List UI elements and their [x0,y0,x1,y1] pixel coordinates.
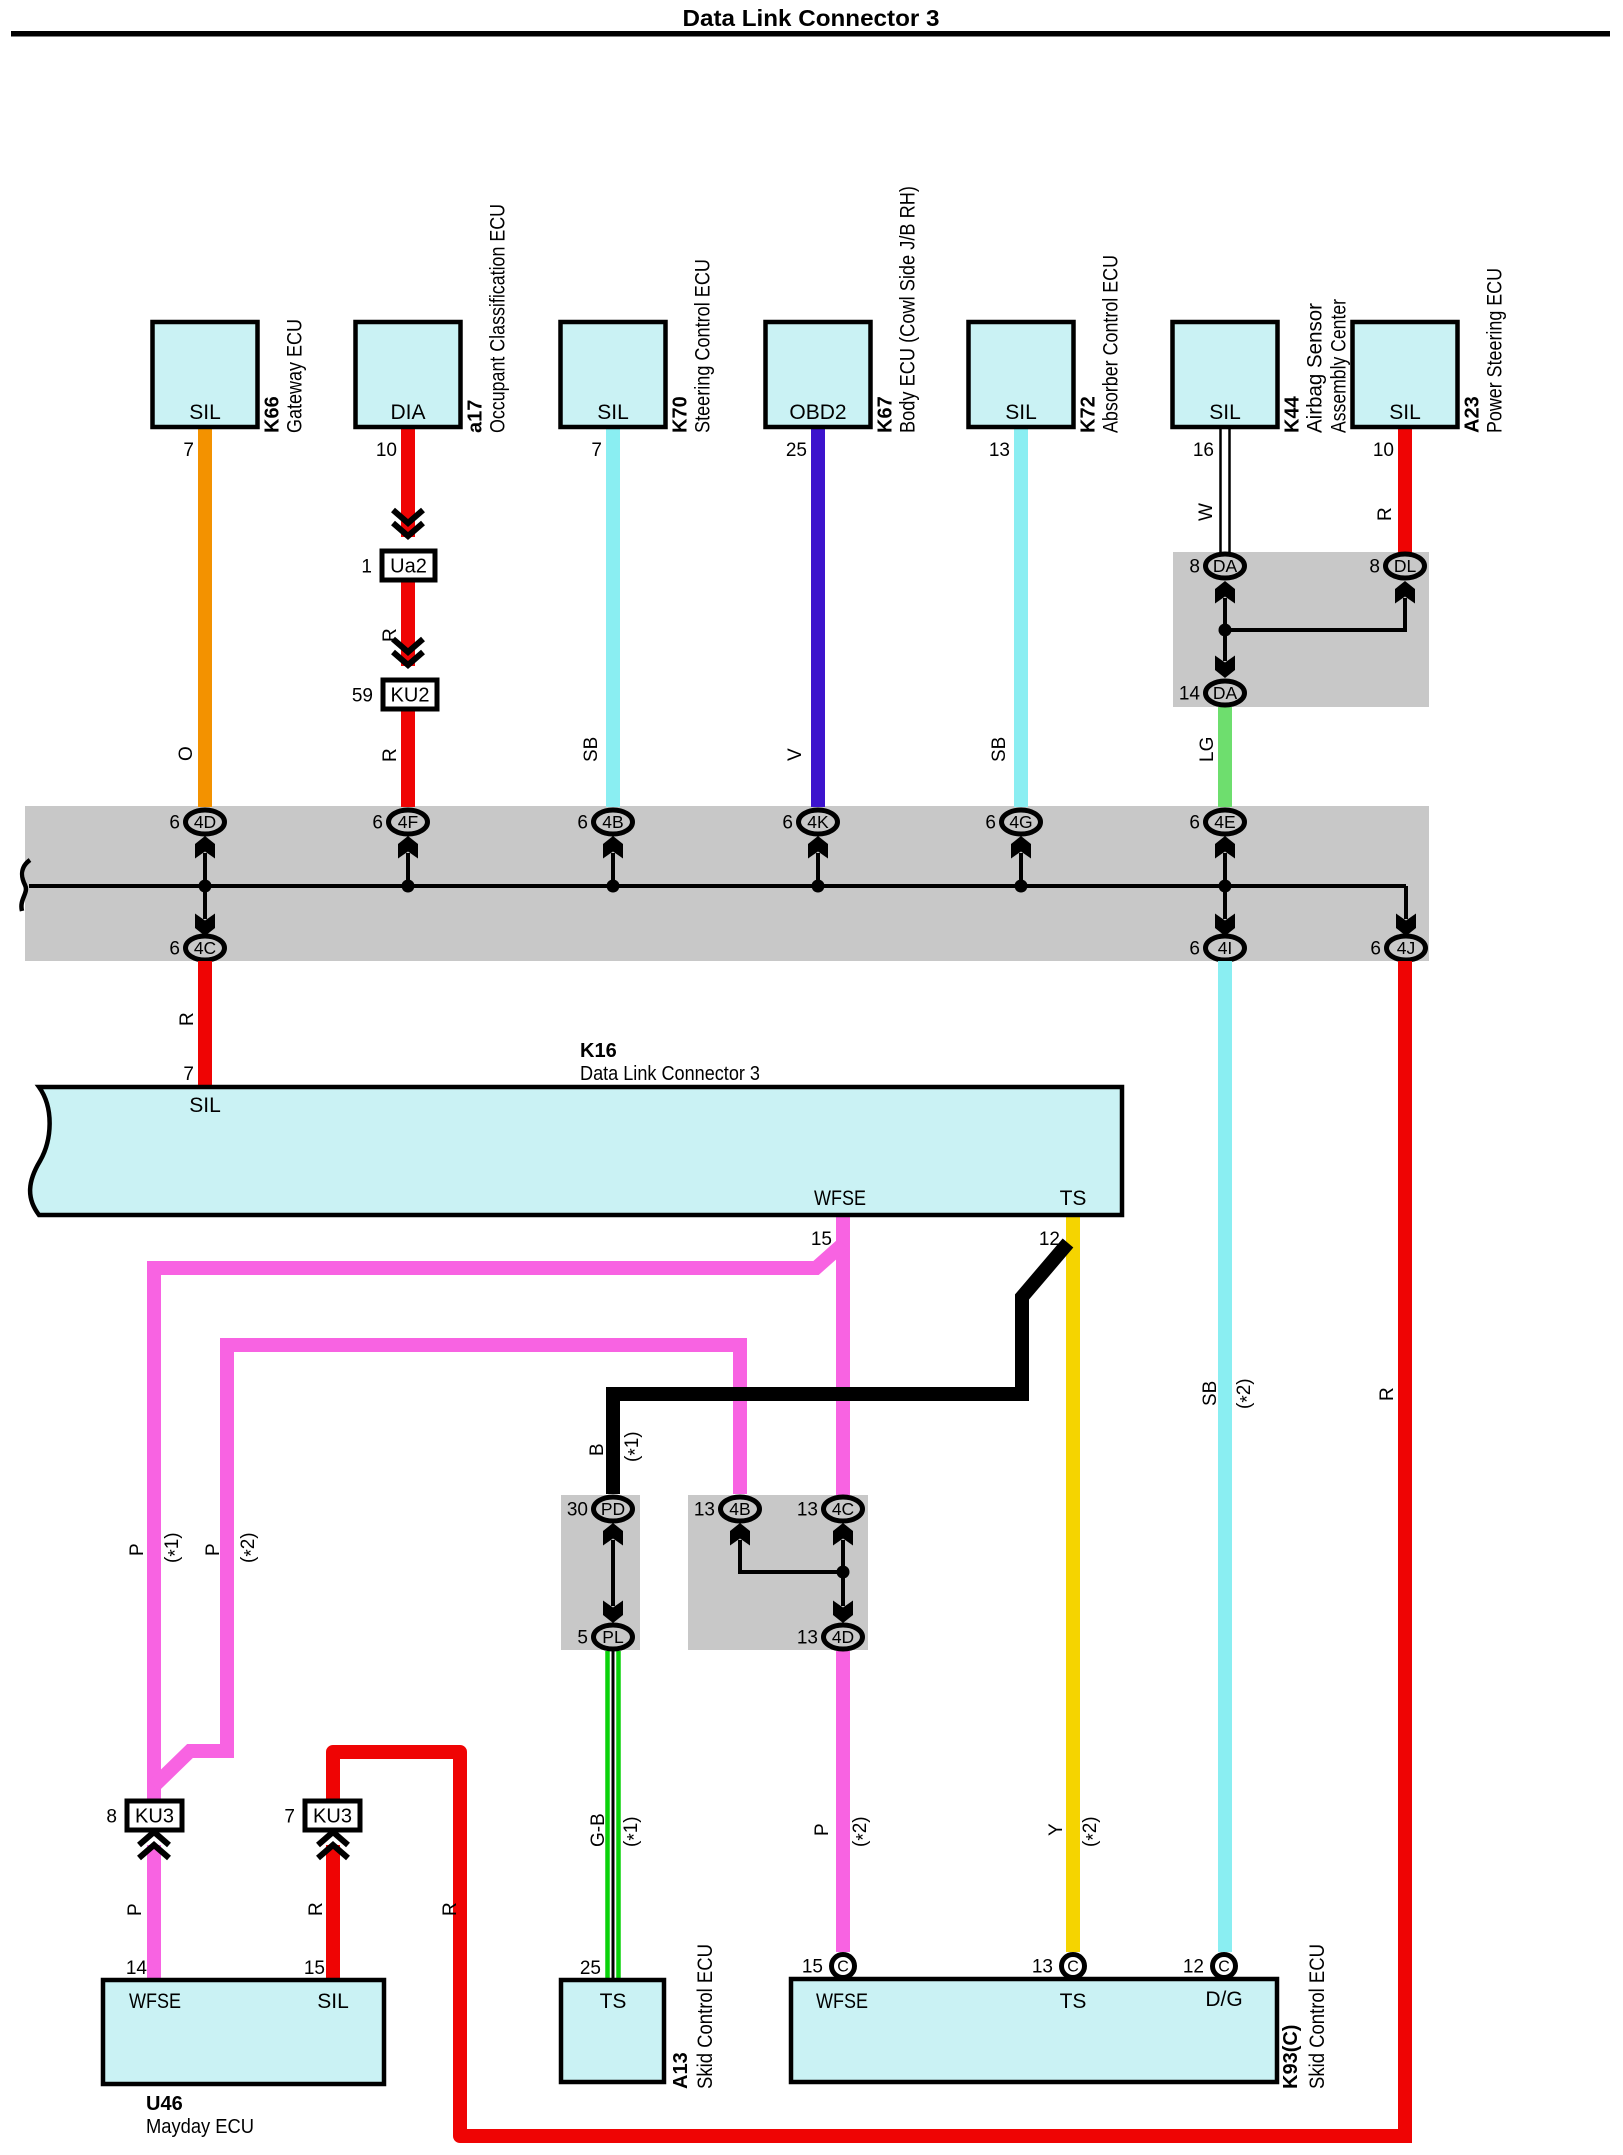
svg-text:4F: 4F [398,812,418,832]
svg-text:K93(C): K93(C) [1280,2025,1302,2089]
svg-text:KU2: KU2 [391,685,430,707]
connector C pin 15 [802,1955,855,1978]
connector 4F pin 6 [372,810,427,834]
junction node at 4D column [199,880,212,893]
wire R (red) 4J down to bottom loop [1398,961,1412,2143]
junction node in 4B/4C/4D block [837,1566,850,1579]
ECU box K93 Skid Control ECU [791,1979,1277,2082]
svg-text:P: P [127,1543,148,1556]
svg-text:C: C [1218,1959,1230,1976]
wire O (orange) K66 pin 7 to 4D [198,427,212,807]
wire: junction to DL inside K44 block [1225,598,1405,630]
svg-text:4G: 4G [1009,812,1032,832]
svg-text:4B: 4B [729,1499,750,1519]
wire R (red) A23 pin 10 to DL [1398,427,1412,553]
svg-text:SIL: SIL [1389,401,1421,424]
connector 4I pin 6 [1189,936,1244,960]
arrow into DA (14) [1215,656,1235,679]
junction node at 4F column [402,880,415,893]
svg-text:4J: 4J [1397,938,1415,958]
wire R (red) KU2 to 4F [401,709,415,807]
svg-text:16: 16 [1193,440,1214,461]
svg-text:U46: U46 [146,2093,183,2115]
wire stub to 4I [1223,886,1227,919]
connector DL pin 8 [1369,554,1424,578]
wire R (red) 4C to K16 pin 7 [198,961,212,1088]
title underline bar [11,31,1610,37]
ECU box U46 Mayday ECU [103,1980,384,2084]
wire stub to 4F [406,853,410,886]
svg-text:6: 6 [1370,939,1381,960]
ECU box K67 Body ECU [766,322,871,427]
svg-text:K67: K67 [875,396,897,433]
svg-text:A23: A23 [1462,396,1484,433]
svg-text:B: B [587,1443,608,1456]
svg-text:Body ECU (Cowl Side J/B RH): Body ECU (Cowl Side J/B RH) [897,186,920,433]
svg-text:6: 6 [169,813,180,834]
svg-text:4B: 4B [602,812,623,832]
connector 4K pin 6 [782,810,837,834]
junction node at 4G column [1015,880,1028,893]
svg-text:Occupant Classification ECU: Occupant Classification ECU [487,204,510,433]
gray connector block DA/DL (K44 area) [1173,552,1429,707]
svg-text:WFSE: WFSE [129,1990,181,2013]
svg-text:4D: 4D [832,1627,854,1647]
connector 4D pin 13 [797,1625,863,1649]
svg-text:7: 7 [591,440,602,461]
wire: DA to junction inside K44 block [1223,598,1227,661]
wire W (white) K44 pin 16 to DA [1221,427,1230,553]
svg-text:SIL: SIL [317,1990,349,2013]
svg-text:Data Link Connector 3: Data Link Connector 3 [683,5,940,31]
wire stub to 4C [203,886,207,919]
wire B (black *1) K16 TS pin 12 to PD(30) [613,1243,1068,1494]
connector PD pin 30 [567,1497,633,1521]
arrow into 4E [1215,836,1235,859]
connector KU3 pin 7 [284,1801,360,1830]
svg-text:DIA: DIA [390,401,425,424]
svg-text:6: 6 [1189,939,1200,960]
svg-text:Y: Y [1046,1823,1067,1836]
connector 4C pin 13 [797,1497,863,1521]
svg-text:(*1): (*1) [622,1431,647,1462]
svg-text:PL: PL [602,1627,624,1647]
wire G-B (green-black) PL pin 5 to A13 TS pin 25 [608,1651,619,1980]
svg-text:D/G: D/G [1205,1988,1242,2011]
svg-text:SIL: SIL [1209,401,1241,424]
wire 4C to 4D inside block [841,1540,845,1606]
svg-text:R: R [306,1902,327,1916]
svg-text:V: V [785,748,806,761]
bus wire (horizontal) in junction band [29,884,1406,888]
ECU box A13 Skid Control ECU [561,1980,664,2082]
svg-text:DL: DL [1394,556,1417,576]
svg-text:(*2): (*2) [238,1532,263,1563]
wire P (pink *1) branch to KU3 pin 8 [154,1244,843,1801]
svg-text:15: 15 [304,1958,325,1979]
svg-text:(*2): (*2) [1080,1816,1105,1847]
svg-text:K70: K70 [670,396,692,433]
svg-text:4K: 4K [807,812,829,832]
wire P (pink *2) from 4B(13) to merge [154,1345,740,1786]
svg-text:SB: SB [989,737,1010,762]
wire R (red) loop upper segment [333,1752,1398,2136]
svg-text:K44: K44 [1282,395,1304,433]
svg-text:A13: A13 [670,2052,692,2089]
inline connector chevrons above Ua2 [393,510,423,536]
svg-text:Steering Control ECU: Steering Control ECU [692,259,715,433]
svg-text:25: 25 [786,440,807,461]
wire 4B to junction inside block [740,1540,843,1572]
arrow into 4J [1396,914,1416,937]
connector C pin 13 [1032,1955,1085,1978]
svg-text:SIL: SIL [189,1094,221,1117]
svg-text:14: 14 [126,1958,148,1979]
svg-text:25: 25 [580,1958,601,1979]
svg-text:LG: LG [1197,737,1218,762]
svg-text:R: R [1375,507,1396,521]
svg-text:TS: TS [1060,1187,1087,1210]
connector DA pin 8 [1189,554,1244,578]
wire Y (yellow) K16 TS pin 12 to K93 TS pin 13 [1066,1217,1080,1952]
svg-text:6: 6 [372,813,383,834]
svg-text:KU3: KU3 [313,1806,352,1828]
svg-text:15: 15 [811,1229,832,1250]
junction node in K44 block [1219,624,1232,637]
svg-text:4D: 4D [194,812,216,832]
svg-text:TS: TS [1060,1990,1087,2013]
svg-text:7: 7 [284,1807,295,1828]
wire stub to 4E [1223,853,1227,886]
svg-text:Data Link Connector 3: Data Link Connector 3 [580,1063,760,1085]
svg-text:13: 13 [797,1500,818,1521]
wire PD to PL inside block [611,1540,615,1606]
bus wire break symbol [21,860,30,911]
arrow into PD [603,1523,623,1546]
svg-text:a17: a17 [465,400,487,433]
connector 4D pin 6 [169,810,224,834]
svg-text:DA: DA [1213,556,1238,576]
wire R (red) a17 pin 10 to Ua2 [401,427,415,537]
svg-text:G-B: G-B [588,1813,609,1847]
junction node at 4E column [1219,880,1232,893]
svg-text:59: 59 [352,686,373,707]
svg-text:Gateway ECU: Gateway ECU [284,319,307,433]
svg-text:8: 8 [106,1807,117,1828]
arrow into 4I [1215,914,1235,937]
svg-text:SB: SB [581,737,602,762]
wire LG (light green) DA pin 14 to 4E [1218,707,1232,807]
svg-text:10: 10 [1373,440,1394,461]
svg-text:(*1): (*1) [621,1816,646,1847]
svg-text:Absorber Control ECU: Absorber Control ECU [1100,255,1123,433]
svg-text:R: R [1377,1387,1398,1401]
svg-text:13: 13 [694,1500,715,1521]
arrow into 4B(13) [730,1523,750,1546]
svg-text:6: 6 [577,813,588,834]
svg-text:12: 12 [1183,1957,1204,1978]
svg-text:14: 14 [1179,684,1201,705]
svg-text:K16: K16 [580,1040,617,1062]
gray junction-block band (4x connectors) [25,806,1429,961]
svg-text:R: R [380,628,401,642]
svg-text:K72: K72 [1078,396,1100,433]
junction node at 4K column [812,880,825,893]
svg-text:WFSE: WFSE [814,1187,866,1210]
wire stub to 4K [816,853,820,886]
wire P (pink) KU3 pin 8 to U46 WFSE pin 14 [147,1845,161,1980]
svg-text:7: 7 [183,440,194,461]
connector 4B pin 13 [694,1497,760,1521]
connector PL pin 5 [577,1625,632,1649]
connector 4E pin 6 [1189,810,1244,834]
connector KU2 pin 59 [352,680,437,709]
svg-text:Skid Control ECU: Skid Control ECU [1306,1944,1329,2089]
ECU box K44 Airbag Sensor Assembly Center [1173,322,1278,427]
svg-text:SIL: SIL [189,401,221,424]
wire R (red) loop: U46 SIL pin 15 via KU3 to 4J [326,1845,340,1980]
svg-text:OBD2: OBD2 [789,401,846,424]
connector C pin 12 [1183,1955,1236,1978]
svg-text:W: W [1196,503,1217,521]
arrow into 4C(13) [833,1523,853,1546]
svg-text:5: 5 [577,1628,588,1649]
svg-text:13: 13 [989,440,1010,461]
svg-text:C: C [837,1959,849,1976]
ECU box K70 Steering Control ECU [561,322,666,427]
svg-text:7: 7 [183,1064,194,1085]
svg-text:Airbag Sensor: Airbag Sensor [1304,303,1327,433]
svg-text:PD: PD [601,1499,625,1519]
svg-text:R: R [380,748,401,762]
arrow into 4D [195,836,215,859]
svg-text:10: 10 [376,440,397,461]
junction node at 4B band column [607,880,620,893]
svg-text:6: 6 [782,813,793,834]
wire SB (light blue) K70 pin 7 to 4B [606,427,620,807]
svg-text:SB: SB [1200,1381,1221,1406]
svg-text:Assembly Center: Assembly Center [1328,299,1351,433]
svg-text:4I: 4I [1218,938,1233,958]
ECU box K72 Absorber Control ECU [969,322,1074,427]
wire stub to 4B band [611,853,615,886]
svg-text:6: 6 [1189,813,1200,834]
svg-text:Power Steering ECU: Power Steering ECU [1484,268,1507,433]
svg-text:4E: 4E [1214,812,1235,832]
arrow into 4C [195,914,215,937]
svg-text:Mayday ECU: Mayday ECU [146,2116,254,2138]
wire P (pink) K16 WFSE pin 15 down to 4C(13) [836,1217,850,1495]
svg-text:R: R [177,1012,198,1026]
arrow into 4K [808,836,828,859]
inline connector chevrons above KU2 [393,639,423,665]
arrow into 4D(13) [833,1601,853,1624]
wire corner to 4J [1404,886,1408,919]
svg-text:8: 8 [1189,557,1200,578]
svg-text:SIL: SIL [1005,401,1037,424]
svg-text:(*1): (*1) [162,1532,187,1563]
svg-text:4C: 4C [832,1499,854,1519]
ECU box K16 Data Link Connector 3 [30,1087,1122,1215]
connector Ua2 pin 1 [361,551,435,580]
svg-text:C: C [1067,1959,1079,1976]
svg-text:(*2): (*2) [850,1816,875,1847]
wire SB (light blue) 4I to K93 pin 12 [1218,961,1232,1952]
svg-text:KU3: KU3 [135,1806,174,1828]
svg-text:P: P [812,1823,833,1836]
svg-text:13: 13 [797,1628,818,1649]
svg-text:4C: 4C [194,938,216,958]
connector KU3 pin 8 [106,1801,182,1830]
arrow into DA (8) [1215,581,1235,604]
gray connector block 4B/4C/4D [688,1495,868,1650]
svg-text:8: 8 [1369,557,1380,578]
svg-text:DA: DA [1213,683,1238,703]
svg-text:Ua2: Ua2 [390,556,427,578]
svg-text:Skid Control ECU: Skid Control ECU [694,1944,717,2089]
connector 4B pin 6 [577,810,632,834]
wire R (red) Ua2 to KU2 [401,580,415,666]
wire V (violet) K67 pin 25 to 4K [811,427,825,807]
connector 4J pin 6 [1370,936,1425,960]
svg-text:6: 6 [985,813,996,834]
ECU box K66 Gateway ECU [153,322,258,427]
arrow into DL (8) [1395,581,1415,604]
svg-text:R: R [440,1902,461,1916]
svg-text:SIL: SIL [597,401,629,424]
arrow into 4B band [603,836,623,859]
ECU box A23 Power Steering ECU [1353,322,1458,427]
arrow into 4G [1011,836,1031,859]
arrow into 4F [398,836,418,859]
ECU box a17 Occupant Classification ECU [356,322,461,427]
gray connector block PD/PL [561,1495,640,1650]
wire stub to 4G [1019,853,1023,886]
svg-text:WFSE: WFSE [816,1990,868,2013]
svg-text:30: 30 [567,1500,588,1521]
arrow into PL [603,1601,623,1624]
svg-text:6: 6 [169,939,180,960]
svg-text:P: P [125,1903,146,1916]
svg-text:(*2): (*2) [1234,1378,1259,1409]
inline connector chevrons below KU3(7) [318,1832,348,1858]
svg-text:O: O [176,746,197,761]
svg-text:K66: K66 [262,396,284,433]
connector 4C pin 6 [169,936,224,960]
svg-text:15: 15 [802,1957,823,1978]
svg-text:P: P [203,1543,224,1556]
wire stub to 4D [203,853,207,886]
svg-text:1: 1 [361,557,372,578]
wire P (pink) 4D(13) down to K93 C pin 15 [836,1651,850,1952]
connector DA pin 14 [1179,681,1245,705]
svg-text:12: 12 [1039,1229,1060,1250]
inline connector chevrons below KU3(8) [139,1832,169,1858]
connector 4G pin 6 [985,810,1040,834]
svg-text:13: 13 [1032,1957,1053,1978]
wire SB (light blue) K72 pin 13 to 4G [1014,427,1028,807]
svg-text:TS: TS [600,1990,627,2013]
